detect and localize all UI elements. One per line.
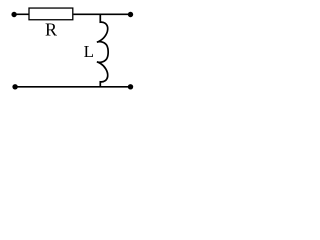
wire top-right segment [74,13,131,15]
terminal dot top-left [11,12,16,17]
wire top-left segment [14,13,29,15]
inductor L (coil) [97,14,108,87]
terminal dot top-right [128,12,133,17]
terminal dot bottom-left [12,84,17,89]
terminal dot bottom-right [128,84,133,89]
svg-text:L: L [84,42,94,61]
wire bottom [15,86,131,88]
resistor R (body) [29,8,73,20]
svg-text:R: R [45,20,57,40]
